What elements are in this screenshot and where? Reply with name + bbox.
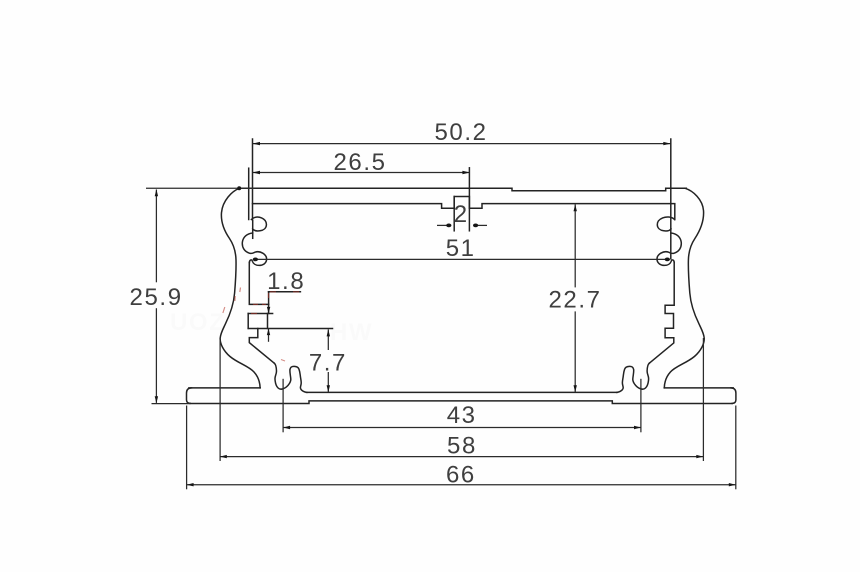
25.9 extension lines	[146, 187, 255, 189]
slot rib extension lines (2 dim)	[453, 197, 455, 231]
2 arrows	[446, 224, 451, 228]
base left end cap	[187, 388, 192, 404]
left lower notch and diagonal to foot	[249, 329, 274, 364]
dimension 58 line	[220, 456, 704, 458]
1.8 arrows	[267, 307, 270, 314]
51 arrows	[253, 258, 258, 262]
lid right joint / extension line	[670, 139, 672, 259]
dimension 1.8 legs	[268, 329, 270, 342]
43 extension lines	[282, 379, 284, 433]
66 arrows	[187, 483, 194, 486]
svg-text:66: 66	[446, 462, 476, 489]
svg-text:43: 43	[447, 402, 477, 429]
lid underside with center slot rib	[253, 197, 675, 220]
left clip lip (1.8 leader landing)	[268, 292, 270, 314]
dimension 66 line	[187, 484, 736, 486]
svg-text:26.5: 26.5	[333, 149, 386, 176]
right inner wall with serration teeth	[649, 263, 674, 364]
svg-text:2: 2	[454, 201, 469, 228]
base inner floor between feet	[307, 391, 618, 393]
base right end cap	[731, 388, 736, 404]
left foot screw keyhole	[274, 363, 307, 392]
58 arrows	[220, 455, 227, 458]
22.7 arrows	[574, 204, 577, 211]
svg-text:1.8: 1.8	[267, 268, 305, 295]
svg-text:51: 51	[446, 235, 476, 262]
faint watermark ghost	[170, 309, 373, 346]
right screw boss upper bump	[657, 217, 674, 231]
66 extension lines	[186, 406, 188, 490]
right foot screw keyhole	[617, 363, 650, 392]
left wall outer S-curve	[220, 188, 260, 387]
dimension 2 line and tails	[437, 224, 451, 226]
25.9 extension dot on wall corner	[237, 186, 241, 190]
svg-text:25.9: 25.9	[130, 284, 183, 311]
base plate top surfaces	[189, 387, 260, 389]
left screw boss middle wall	[252, 221, 254, 239]
dimension 26.5 line	[253, 172, 470, 174]
dimension 50.2 line	[253, 143, 671, 145]
svg-text:UOZ: UOZ	[170, 309, 225, 336]
red watermark remnants on some segments	[223, 288, 299, 362]
lid left joint lines	[252, 139, 254, 220]
dimension 51 line	[253, 258, 670, 260]
lid top surface with step	[239, 188, 686, 191]
25.9 arrows	[155, 189, 158, 196]
left screw boss upper bump	[251, 217, 266, 231]
right wall outer S-curve	[664, 188, 704, 387]
svg-text:50.2: 50.2	[434, 119, 487, 146]
svg-text:7.7: 7.7	[309, 349, 347, 376]
50.2 arrows	[253, 142, 261, 145]
left inner wall below boss	[249, 263, 268, 305]
dimension 7.7 line (broken for text)	[327, 329, 329, 350]
dimension 22.7 line (broken for text)	[574, 204, 576, 287]
58 extension lines	[219, 338, 221, 461]
right screw boss notch and lower bump	[657, 233, 681, 265]
base bottom with recess	[190, 401, 732, 404]
svg-text:22.7: 22.7	[548, 287, 601, 314]
43 arrows	[283, 426, 290, 429]
26.5 arrows	[253, 171, 261, 174]
7.7 arrows	[327, 329, 330, 336]
flange bottom merged with 7.7 extension line	[248, 328, 332, 330]
svg-text:58: 58	[447, 433, 477, 460]
left flange tab	[248, 313, 272, 315]
left screw boss notch and lower bump	[242, 233, 266, 265]
arrowheads	[155, 142, 736, 487]
dimension 25.9 line (broken for text)	[155, 190, 157, 283]
svg-text:HW: HW	[330, 319, 373, 346]
dimension texts	[130, 119, 602, 489]
dimension 43 line	[283, 427, 641, 429]
